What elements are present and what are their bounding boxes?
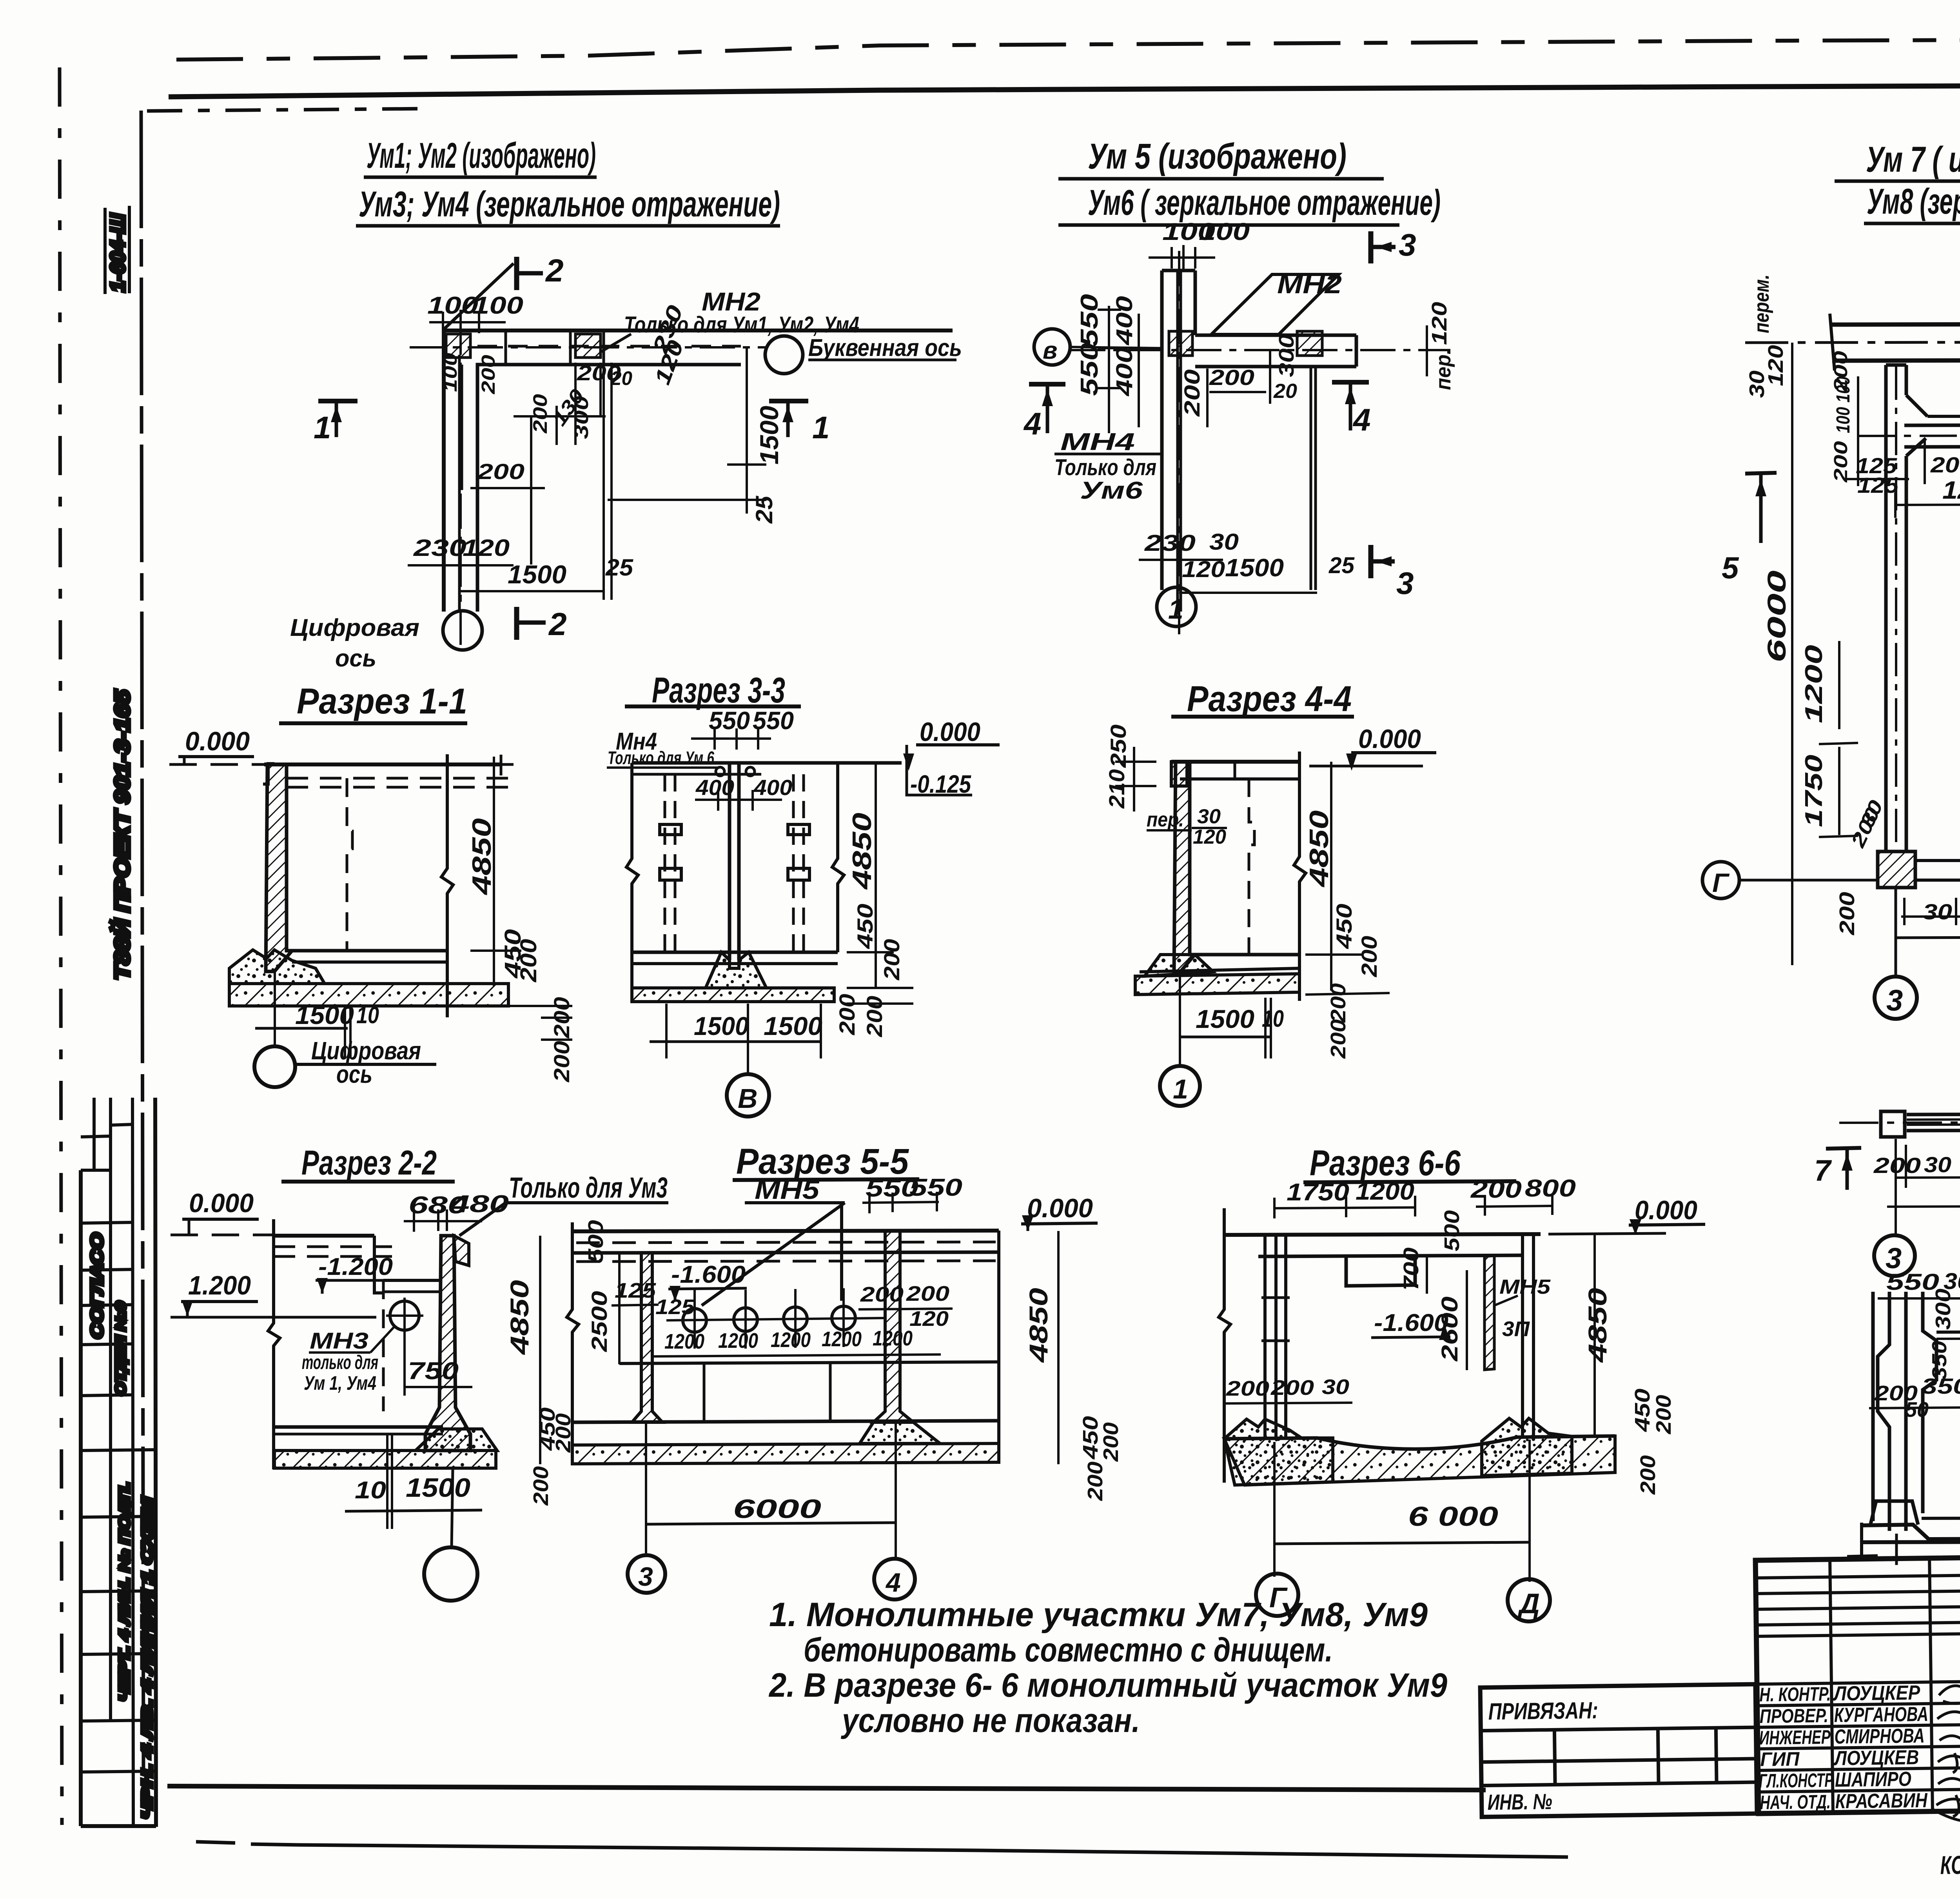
svg-text:Буквенная ось: Буквенная ось [808, 334, 962, 361]
svg-text:1500: 1500 [764, 1011, 822, 1040]
svg-text:200: 200 [477, 459, 524, 484]
foundation left block dotted [229, 950, 325, 984]
svg-text:100 100: 100 100 [1833, 376, 1854, 433]
svg-text:4: 4 [1023, 406, 1042, 441]
bottom slab line [274, 1425, 443, 1429]
right wall hatched [873, 1231, 913, 1422]
column axis3 upper [1886, 365, 1906, 851]
column axis3 bottom hatch block [1878, 851, 1915, 888]
svg-text:100: 100 [440, 353, 461, 392]
svg-text:1500: 1500 [406, 1473, 470, 1503]
section marker 4 left [1029, 382, 1065, 387]
section marker 5 left [1745, 473, 1777, 474]
wall vertical double [1160, 271, 1164, 590]
main title block outer [1755, 1550, 1960, 1814]
axis circle 3 [1875, 977, 1917, 1019]
svg-text:210: 210 [1104, 769, 1129, 809]
dim 4850 rotated right [1057, 1231, 1060, 1464]
column axis3 haunch bottom [1906, 438, 1926, 456]
wall top ledge [263, 764, 274, 784]
svg-text:Разрез 2-2: Разрез 2-2 [301, 1143, 437, 1182]
svg-text:200: 200 [1930, 452, 1960, 477]
svg-text:1: 1 [1168, 594, 1183, 625]
left wall double [1265, 1235, 1286, 1439]
inner wall axis [1858, 435, 1960, 436]
svg-text:120: 120 [463, 535, 510, 561]
svg-text:200: 200 [1327, 1019, 1350, 1059]
left foundation dotted [1224, 1419, 1333, 1485]
svg-text:550: 550 [1076, 294, 1103, 347]
wall mid faces [458, 355, 461, 612]
svg-text:перем.: перем. [1750, 274, 1773, 333]
axis circle G [1256, 1574, 1298, 1616]
svg-text:6000: 6000 [733, 1494, 821, 1524]
anchor hatched block left [1169, 331, 1192, 356]
svg-text:Только для Ум3: Только для Ум3 [509, 1171, 668, 1204]
inner dashed vertical [1249, 779, 1254, 955]
svg-text:ИНВ. №: ИНВ. № [1487, 1789, 1552, 1814]
svg-text:1500: 1500 [755, 406, 784, 465]
svg-text:4850: 4850 [1304, 810, 1334, 888]
foundation block dotted [1145, 955, 1213, 976]
svg-text:в: в [1043, 337, 1057, 364]
svg-text:Г: Г [1712, 868, 1730, 898]
svg-text:200: 200 [1226, 1377, 1269, 1400]
column axis3 haunch top [1906, 395, 1927, 416]
svg-text:1500: 1500 [1196, 1004, 1254, 1033]
tank bottom curved [1224, 1436, 1615, 1449]
end block left [1881, 1111, 1905, 1137]
svg-text:1200: 1200 [822, 1327, 862, 1351]
level -0.125 right [907, 745, 972, 795]
svg-text:Разрез 3-3: Разрез 3-3 [652, 670, 785, 710]
anchor circles row [683, 1309, 706, 1332]
bottom slab lines [572, 1421, 999, 1422]
svg-text:СМИРНОВА: СМИРНОВА [1834, 1725, 1925, 1748]
svg-text:300: 300 [1275, 334, 1298, 377]
svg-text:200: 200 [529, 1466, 553, 1506]
svg-text:0.000: 0.000 [1027, 1193, 1093, 1223]
svg-text:1200: 1200 [1942, 476, 1960, 504]
svg-text:700: 700 [1399, 1247, 1423, 1291]
dim 4850 rotated [539, 1236, 541, 1464]
dim line right 1500 vertical [746, 347, 748, 514]
right wall [1523, 1235, 1534, 1438]
signature rows [1757, 1674, 1960, 1684]
svg-text:300: 300 [570, 396, 592, 439]
central foundation hump dotted [706, 952, 766, 988]
svg-text:Т88Й ПРОЕКТ 901-3-165: Т88Й ПРОЕКТ 901-3-165 [110, 690, 134, 980]
svg-text:1: 1 [1173, 1074, 1188, 1104]
left wall hatched [632, 1253, 662, 1422]
section marker 1 right [769, 399, 808, 403]
svg-text:125: 125 [655, 1295, 695, 1319]
horizontal wall axis [1070, 349, 1450, 351]
svg-text:480: 480 [449, 1191, 509, 1218]
left vertical edge with break [268, 1219, 280, 1469]
svg-text:3: 3 [1399, 227, 1416, 262]
svg-text:1200: 1200 [1800, 645, 1828, 723]
right inner vertical with break [832, 763, 844, 952]
right foundation dotted [1482, 1418, 1572, 1476]
svg-text:125: 125 [615, 1279, 656, 1302]
svg-text:125: 125 [1857, 473, 1899, 497]
svg-text:6 000: 6 000 [1408, 1501, 1498, 1532]
wall hatched tapered [425, 1236, 470, 1451]
right edge with break [1294, 752, 1306, 1001]
top slab lines [274, 1234, 374, 1238]
svg-text:50: 50 [1905, 1398, 1929, 1422]
svg-text:Ум6: Ум6 [1080, 477, 1143, 504]
svg-text:1500: 1500 [1225, 554, 1284, 582]
axis line [1839, 1122, 1960, 1123]
svg-text:ЧРН. 4 ЛВ. 4 ЛИНИЯ 1 СХЕМ: ЧРН. 4 ЛВ. 4 ЛИНИЯ 1 СХЕМ [139, 1497, 156, 1819]
axis circle letter row [765, 336, 803, 374]
svg-text:20: 20 [1273, 380, 1297, 403]
joint lines at wall [505, 330, 507, 365]
wall corner inner lines [477, 365, 741, 612]
svg-text:200: 200 [860, 1283, 904, 1306]
svg-text:0.000: 0.000 [189, 1188, 254, 1218]
svg-text:3: 3 [1396, 566, 1414, 601]
base end ticks [1847, 1556, 1878, 1556]
svg-text:200: 200 [1636, 1455, 1660, 1495]
svg-text:20: 20 [610, 367, 632, 389]
frame bottom heavy line [167, 1786, 1486, 1790]
dim 4850 rotated [875, 763, 877, 988]
svg-text:200: 200 [1099, 1422, 1123, 1462]
svg-text:400: 400 [753, 775, 792, 800]
foundation block dotted [416, 1429, 497, 1451]
svg-text:230: 230 [1144, 530, 1196, 556]
wall strip double lines [1907, 1113, 1960, 1115]
svg-text:5: 5 [1722, 550, 1739, 585]
frame left inner vertical [141, 111, 143, 1786]
svg-text:ось: ось [335, 645, 376, 672]
floor slab lines [632, 951, 838, 954]
wall axis vertical [1178, 251, 1180, 635]
horizontal wall right [1195, 334, 1356, 337]
svg-text:Только для Ум 6: Только для Ум 6 [608, 748, 714, 768]
frame top heavy line [169, 84, 1960, 97]
section marker 4 right [1332, 380, 1369, 385]
svg-text:4: 4 [1352, 402, 1371, 437]
section marker 2 bottom [514, 607, 519, 640]
svg-text:Ум3; Ум4 (зеркальное отражени: Ум3; Ум4 (зеркальное отражение) [359, 184, 780, 224]
svg-text:-1.600: -1.600 [671, 1261, 746, 1288]
svg-text:Д: Д [1517, 1588, 1540, 1619]
svg-text:4850: 4850 [1024, 1288, 1053, 1363]
svg-text:4: 4 [885, 1568, 901, 1598]
svg-text:200: 200 [516, 939, 541, 982]
svg-text:ПРИВЯЗАН:: ПРИВЯЗАН: [1488, 1697, 1598, 1725]
svg-text:1500: 1500 [694, 1011, 749, 1040]
svg-text:350: 350 [1928, 1341, 1951, 1380]
sheet outer top edge line [176, 39, 1960, 60]
central wall double [728, 763, 731, 960]
left edge vertical with break [1219, 1208, 1230, 1483]
double line below wall end [1310, 367, 1312, 590]
top slab line [264, 763, 501, 766]
svg-text:300: 300 [1931, 1289, 1955, 1330]
right foundation dotted [860, 1422, 940, 1443]
axis circle G left [1702, 862, 1739, 899]
axis circle V [1034, 329, 1070, 365]
axis 3 dash-dot line [1895, 367, 1897, 851]
svg-text:0.000: 0.000 [1635, 1195, 1697, 1225]
svg-text:Цифровая: Цифровая [290, 614, 419, 641]
svg-text:ЛОУЦКЕВ: ЛОУЦКЕВ [1833, 1746, 1919, 1770]
svg-text:ЛОУЦКЕР: ЛОУЦКЕР [1832, 1681, 1920, 1705]
axis circle bottom [254, 1046, 295, 1087]
svg-text:ГИП: ГИП [1760, 1748, 1800, 1770]
svg-text:2. В разрезе 6- 6 монолитн: 2. В разрезе 6- 6 монолитный участок Ум9 [768, 1667, 1447, 1704]
axis circle 3 [628, 1555, 665, 1593]
svg-text:ПРОВЕР.: ПРОВЕР. [1760, 1705, 1829, 1727]
svg-text:КРАСАВИН: КРАСАВИН [1835, 1789, 1928, 1813]
svg-text:500: 500 [584, 1220, 608, 1263]
svg-text:200: 200 [879, 939, 904, 980]
svg-text:200: 200 [549, 1041, 574, 1082]
svg-text:10: 10 [356, 1002, 379, 1028]
svg-text:пер.: пер. [1432, 349, 1455, 390]
foundation hatched strip [274, 1451, 496, 1468]
MN5 hatched embed [1485, 1256, 1494, 1370]
svg-text:1200: 1200 [771, 1328, 811, 1352]
wall top ledge hatched [1171, 762, 1187, 786]
svg-text:В: В [738, 1083, 758, 1114]
svg-text:НАЧ. ОТД.: НАЧ. ОТД. [1760, 1791, 1831, 1814]
dim 4850 rotated right [1593, 1234, 1596, 1435]
slab step to -1.200 [374, 1236, 383, 1293]
axis circle V bottom [727, 1074, 769, 1117]
svg-text:МН5: МН5 [755, 1175, 820, 1205]
signature scribbles [1931, 1685, 1960, 1837]
svg-text:Ум8 (зеркальное отражение): Ум8 (зеркальное отражение) [1867, 182, 1960, 221]
svg-text:200: 200 [1327, 983, 1350, 1023]
svg-text:ШАПИРО: ШАПИРО [1835, 1768, 1912, 1791]
svg-text:200: 200 [1873, 1153, 1921, 1178]
svg-text:450: 450 [1079, 1416, 1102, 1460]
wall axis dash-dot horizontal [410, 346, 765, 349]
wall corner outer lines [444, 330, 953, 612]
svg-text:30: 30 [1923, 899, 1952, 924]
svg-text:МН4: МН4 [1060, 428, 1135, 456]
mid slab line [619, 1362, 999, 1363]
second slab line [1258, 1255, 1523, 1256]
svg-text:0.000: 0.000 [185, 726, 250, 756]
svg-text:200: 200 [906, 1282, 949, 1305]
svg-text:450: 450 [1332, 904, 1356, 949]
axis circle 4 [874, 1559, 915, 1599]
section marker 1 left [318, 399, 358, 403]
svg-text:-0.125: -0.125 [910, 770, 971, 798]
svg-text:1200: 1200 [1356, 1178, 1414, 1205]
svg-text:450: 450 [1631, 1389, 1654, 1432]
left margin stamp: upper inventory mark [105, 206, 129, 294]
axis circle D [1508, 1579, 1550, 1621]
svg-text:200: 200 [1652, 1395, 1675, 1434]
slab dashed lines [576, 1242, 996, 1243]
hole circle MN3 [390, 1301, 419, 1330]
dim line right 450 200 [493, 757, 495, 986]
svg-text:7: 7 [1814, 1154, 1832, 1187]
svg-text:3: 3 [1886, 984, 1903, 1017]
svg-text:4850: 4850 [1583, 1288, 1612, 1363]
svg-text:Ум 1, Ум4: Ум 1, Ум4 [304, 1372, 376, 1394]
svg-text:1200: 1200 [664, 1330, 704, 1353]
left vertical dim line 6000 [1791, 343, 1793, 965]
svg-text:только для: только для [302, 1351, 378, 1373]
svg-text:2600: 2600 [1437, 1296, 1463, 1362]
svg-text:МН5: МН5 [1499, 1276, 1551, 1298]
section marker 2 top [514, 257, 519, 290]
left margin stamp table [81, 1098, 156, 1827]
axis circle 1 bottom [1160, 1066, 1200, 1106]
svg-text:3: 3 [638, 1562, 653, 1592]
svg-text:МН3: МН3 [310, 1328, 368, 1354]
svg-text:30: 30 [1924, 1152, 1951, 1177]
svg-text:120: 120 [909, 1307, 949, 1331]
section marker 7 left [1826, 1148, 1861, 1149]
wall left end tick [1830, 314, 1835, 370]
anchor hatched block right [1297, 331, 1322, 356]
svg-text:1.200: 1.200 [188, 1271, 251, 1300]
svg-text:400: 400 [1112, 296, 1137, 345]
section marker 3 bottom [1368, 545, 1374, 578]
svg-text:200: 200 [478, 355, 499, 395]
horizontal slab lines [1936, 1331, 1960, 1332]
axis circle 3 [1874, 1235, 1915, 1276]
svg-text:МН2: МН2 [1277, 269, 1342, 299]
left panel clamps [660, 824, 681, 835]
svg-text:200: 200 [1083, 1461, 1107, 1501]
svg-text:Ум 5 (изображено): Ум 5 (изображено) [1088, 136, 1347, 176]
svg-text:1200: 1200 [873, 1327, 913, 1350]
MN5 leader lines [702, 1203, 845, 1305]
svg-text:2500: 2500 [587, 1291, 612, 1352]
wall clamp marks [1261, 1296, 1290, 1299]
frame left dashed vertical [60, 67, 62, 1825]
svg-text:200: 200 [1831, 441, 1851, 483]
svg-text:ИНЖЕНЕР: ИНЖЕНЕР [1759, 1726, 1831, 1749]
svg-text:1750: 1750 [1800, 755, 1828, 827]
bolts circles [716, 767, 724, 776]
svg-text:200: 200 [529, 394, 551, 434]
svg-text:Разрез 6-6: Разрез 6-6 [1310, 1143, 1461, 1183]
svg-text:Разрез 4-4: Разрез 4-4 [1187, 679, 1352, 719]
svg-text:230: 230 [413, 535, 466, 561]
masonry joints [703, 1363, 706, 1422]
svg-text:-1.200: -1.200 [318, 1253, 393, 1280]
svg-text:СОГЛАСО: СОГЛАСО [87, 1233, 107, 1339]
svg-text:500: 500 [1440, 1210, 1464, 1251]
dim line 1200 chain [1895, 503, 1960, 505]
svg-text:1. Монолитные участки Ум7,: 1. Монолитные участки Ум7, Ум8, Ум9 [769, 1596, 1428, 1634]
svg-text:200: 200 [1209, 365, 1254, 390]
svg-text:200: 200 [1180, 369, 1204, 417]
svg-text:2: 2 [545, 253, 564, 289]
wall hatched [1174, 762, 1195, 972]
svg-text:1: 1 [314, 410, 331, 445]
svg-text:КОПИРОВАЛ АНТИПОВА: КОПИРОВАЛ АНТИПОВА [1940, 1848, 1960, 1880]
axis line under block [1895, 888, 1897, 977]
right edge vertical [997, 1231, 1000, 1463]
svg-text:1: 1 [812, 410, 830, 445]
foundation hatched strip [632, 988, 834, 1002]
svg-text:200: 200 [835, 994, 859, 1035]
foundation top line [1140, 968, 1299, 972]
svg-text:30: 30 [1745, 370, 1769, 398]
svg-text:25: 25 [1328, 553, 1355, 578]
top slab dashed lines [287, 777, 517, 780]
svg-text:4850: 4850 [467, 818, 497, 896]
anchor MN2 hatched block 2 [575, 334, 601, 358]
dim line 4850 with break [441, 754, 453, 1017]
foundation hatched strip [229, 984, 508, 1006]
anchor MN2 hatched block 1 [446, 334, 470, 358]
floor slab lines [287, 949, 446, 953]
top small rows [1755, 1550, 1960, 1814]
svg-text:пер.: пер. [1147, 808, 1184, 831]
MN2 parallelogram leader [1211, 274, 1339, 334]
left panel dashed verticals [665, 774, 675, 952]
inner joint dashed vertical [347, 778, 352, 951]
floor slab [1190, 953, 1299, 957]
svg-text:6000: 6000 [1762, 570, 1791, 663]
bottom left short scan mark [196, 1842, 235, 1843]
wall top right flange [454, 1236, 469, 1265]
svg-text:КУРГАНОВА: КУРГАНОВА [1834, 1703, 1929, 1727]
svg-text:200: 200 [1270, 1376, 1314, 1400]
foundation hatched strip [572, 1443, 999, 1464]
signature table labels [1758, 1681, 1929, 1814]
privyazan table [1480, 1684, 1757, 1817]
svg-text:400: 400 [695, 775, 734, 800]
frame bottom lower scan line [251, 1844, 1568, 1857]
left edge vertical with break [567, 1222, 579, 1463]
svg-text:30: 30 [1197, 805, 1221, 828]
svg-text:3П: 3П [1502, 1317, 1530, 1341]
inner wall between columns [1904, 424, 1960, 425]
svg-text:30: 30 [1209, 529, 1239, 555]
svg-text:Ум 7 ( изображено): Ум 7 ( изображено) [1866, 140, 1960, 180]
left edge with break [626, 763, 638, 1002]
svg-text:4850: 4850 [847, 813, 877, 890]
wall axis dash-dot vertical [459, 320, 462, 651]
svg-text:бетонировать совместно с дни: бетонировать совместно с днищем. [804, 1631, 1333, 1669]
left column profile [1873, 1292, 1936, 1531]
svg-text:0.000: 0.000 [920, 717, 980, 747]
svg-text:1750: 1750 [1287, 1179, 1349, 1206]
svg-text:4850: 4850 [505, 1280, 534, 1356]
svg-text:800: 800 [1525, 1175, 1576, 1202]
svg-text:120: 120 [1428, 302, 1451, 345]
dim 4850 rotated [1330, 762, 1332, 991]
svg-text:Ум1; Ум2 (изображено): Ум1; Ум2 (изображено) [367, 136, 596, 176]
svg-text:МН2: МН2 [702, 287, 760, 316]
svg-text:Только для: Только для [1054, 455, 1156, 480]
svg-text:ГЛ.КОНСТР.: ГЛ.КОНСТР. [1759, 1769, 1836, 1792]
svg-text:1-604-Ш: 1-604-Ш [107, 213, 129, 292]
corner mitre diagonal [444, 263, 514, 329]
bottom foundation hatched [1224, 1436, 1615, 1485]
top slab heavy lines [572, 1231, 999, 1231]
svg-text:450: 450 [853, 904, 877, 949]
svg-text:200: 200 [862, 996, 887, 1037]
axis circle bottom [424, 1547, 477, 1601]
axis circle 1 [1157, 587, 1196, 626]
